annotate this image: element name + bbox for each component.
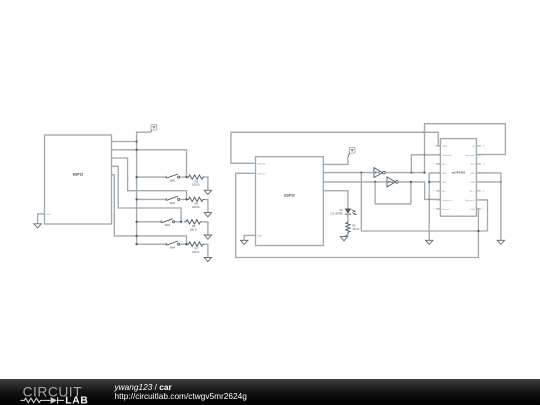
junction bus SW2	[135, 221, 137, 223]
svg-text:INV1: INV1	[375, 172, 381, 175]
wire U1 gnd	[38, 214, 45, 224]
ground G1	[34, 224, 41, 228]
ground R7	[204, 257, 211, 261]
svg-text:SW0: SW0	[170, 179, 176, 183]
junction 1A line	[423, 154, 425, 156]
wire gnd rail right	[500, 173, 502, 240]
junction INV1 input tap	[360, 171, 362, 173]
node SW0-R1	[185, 176, 187, 178]
svg-text:ESP32: ESP32	[284, 194, 295, 198]
switch SW2	[161, 219, 174, 228]
junction INV1 out branch	[410, 171, 412, 173]
svg-text:GND: GND	[442, 173, 447, 175]
wire U2 q1 to flag	[323, 157, 348, 165]
switch SW0	[166, 174, 179, 183]
ground G5	[497, 240, 504, 244]
svg-text:6: 6	[433, 191, 434, 193]
svg-text:1: 1	[433, 146, 434, 148]
wire LED to R5	[347, 214, 349, 221]
wire U1 pin4 to SW2 node	[112, 166, 182, 222]
wire underpass1	[361, 173, 487, 231]
svg-text:GND: GND	[470, 173, 475, 175]
wire R3 to ground	[203, 222, 208, 235]
svg-text:PWM: PWM	[442, 146, 447, 148]
ground R2	[204, 213, 211, 217]
junction INV2 input tap	[374, 181, 376, 183]
net flag 5V left	[151, 124, 157, 132]
wire SW1 to node	[180, 198, 187, 200]
svg-text:R2: R2	[195, 202, 199, 206]
wire U2 q3 to INV2 input	[323, 181, 387, 183]
wire underpass2	[375, 182, 411, 204]
wire bus to SW2	[137, 221, 161, 223]
svg-text:R3: R3	[192, 224, 196, 228]
wire bus to SW4	[137, 243, 166, 245]
ground R3	[204, 235, 211, 239]
junction bus SW0	[135, 176, 137, 178]
ground G2	[241, 240, 248, 244]
svg-text:SW4: SW4	[170, 246, 176, 250]
svg-text:Forward(-): Forward(-)	[465, 154, 475, 157]
resistor R3 100 Ohm	[184, 220, 203, 232]
ESP32 module U1 (left microcontroller)	[45, 135, 112, 224]
resistor R2 100 Ohm	[186, 197, 205, 209]
ESP32 module U2 (right microcontroller)	[256, 157, 324, 246]
svg-text:16: 16	[483, 146, 485, 148]
svg-text:PWM: PWM	[470, 209, 475, 211]
CircuitLab logo	[18, 379, 118, 405]
svg-text:15: 15	[483, 155, 485, 157]
wire U1 pin2 to SW0 node	[112, 150, 187, 177]
svg-text:10: 10	[483, 200, 485, 202]
resistor R7 100 Ohm	[186, 242, 205, 254]
svg-text:GND: GND	[257, 235, 262, 237]
wire U3 gnd rail left	[429, 173, 440, 240]
ground G3	[340, 237, 347, 241]
svg-text:SW1: SW1	[170, 201, 176, 205]
svg-text:INV2: INV2	[388, 181, 394, 184]
svg-text:100 Ω: 100 Ω	[192, 183, 199, 187]
junction underpass2 top	[410, 181, 412, 183]
svg-text:sn754410: sn754410	[452, 170, 466, 174]
svg-text:MC -: MC -	[442, 191, 447, 193]
wire R2 to ground	[205, 199, 208, 212]
wire U3 gnd pin13	[476, 172, 501, 174]
motor driver U3 SN754410	[440, 139, 476, 217]
svg-text:100 Ω: 100 Ω	[192, 250, 199, 254]
junction INV1 out rail	[423, 171, 425, 173]
wire SW0 to node	[180, 176, 187, 178]
node SW1-R2	[185, 198, 187, 200]
wire U3 gnd pin12	[476, 181, 501, 183]
wire SW2 to node	[175, 221, 182, 223]
svg-text:GND: GND	[470, 182, 475, 184]
ground R1	[204, 190, 211, 194]
junction underpass1 loop	[477, 230, 479, 232]
junction bus crossing 2	[135, 235, 137, 237]
wire INV2 output to driver 2A	[398, 182, 440, 200]
svg-text:R7: R7	[195, 246, 199, 250]
svg-text:100 Ω: 100 Ω	[190, 227, 197, 231]
svg-text:MC -: MC -	[470, 164, 475, 166]
junction rail A/B	[423, 131, 425, 133]
junction bus crossing	[135, 149, 137, 151]
junction bus SW1	[135, 198, 137, 200]
svg-text:GPIO17: GPIO17	[257, 173, 266, 175]
ground G4	[426, 240, 433, 244]
wire bus to SW1	[137, 198, 166, 200]
wire underpass1 up to 3A	[476, 200, 487, 231]
svg-text:100 Ω: 100 Ω	[353, 228, 360, 231]
svg-text:GND: GND	[442, 182, 447, 184]
wire rail A	[231, 132, 425, 163]
wire big loop	[236, 173, 479, 257]
svg-text:8: 8	[433, 209, 434, 211]
wire U2 q2 to INV1 input	[323, 172, 374, 174]
svg-text:MC +: MC +	[442, 164, 448, 166]
net flag 5V right	[348, 147, 355, 156]
svg-text:GPIO16: GPIO16	[257, 163, 266, 165]
svg-text:Forward(+): Forward(+)	[442, 154, 453, 157]
wire rail B to 4A pin	[425, 124, 506, 155]
LED D1 LTL-307EE	[330, 209, 356, 216]
wire R1 to ground	[205, 177, 208, 190]
wire SW4 to node	[180, 243, 187, 245]
node SW2-R3	[180, 221, 182, 223]
wire U2 q4 to LED	[323, 191, 348, 209]
svg-text:MC +: MC +	[470, 191, 476, 193]
footer text	[115, 383, 247, 402]
svg-text:100 Ω: 100 Ω	[192, 205, 199, 209]
junction bus SW4	[135, 243, 137, 245]
wire U1 pin3 to SW1 node	[112, 158, 187, 199]
wire 5V bus vertical	[137, 132, 151, 244]
node SW4-R7	[185, 243, 187, 245]
wire U1 pin5 to SW4 node	[112, 175, 187, 244]
svg-text:Reverse(-): Reverse(-)	[465, 199, 475, 202]
junction bus pin1	[135, 140, 137, 142]
wire INV1 out to driver 1A	[411, 155, 440, 173]
wire U1 pin1 to bus	[112, 141, 137, 143]
svg-text:LAB: LAB	[65, 396, 88, 405]
footer bar	[0, 379, 540, 405]
U3 pin stubs and labels	[433, 146, 484, 211]
wire R5 to ground	[344, 234, 348, 237]
wire INV1 output	[385, 172, 424, 174]
svg-text:14: 14	[483, 164, 485, 166]
svg-text:11: 11	[483, 191, 485, 193]
wire R7 to ground	[205, 244, 208, 257]
switch SW4	[166, 241, 179, 250]
svg-text:SW2: SW2	[165, 223, 171, 227]
resistor R1 100 Ohm	[186, 175, 205, 187]
svg-text:3: 3	[433, 164, 434, 166]
svg-text:7: 7	[433, 200, 434, 202]
junction gnd rail right	[500, 181, 502, 183]
resistor R5 100 Ohm	[346, 221, 360, 234]
wire U2 gnd	[244, 235, 255, 240]
svg-text:ESP32: ESP32	[73, 172, 84, 176]
junction crossing gnd rail	[428, 198, 430, 200]
svg-text:GND: GND	[47, 214, 52, 216]
svg-text:2: 2	[433, 155, 434, 157]
svg-text:R1: R1	[195, 179, 199, 183]
svg-text:Power 5: Power 5	[442, 208, 450, 211]
svg-text:Reverse(+): Reverse(+)	[442, 199, 453, 202]
svg-text:9: 9	[483, 209, 484, 211]
wire U3 gnd pin5	[429, 181, 440, 183]
svg-text:LTL-307EE: LTL-307EE	[330, 212, 343, 215]
wire rail A to driver 1,2EN	[425, 132, 441, 146]
junction gnd rail left	[428, 181, 430, 183]
wire railA drop vertical	[424, 132, 426, 172]
switch SW1	[166, 196, 179, 205]
wire bus to SW0	[137, 176, 166, 178]
